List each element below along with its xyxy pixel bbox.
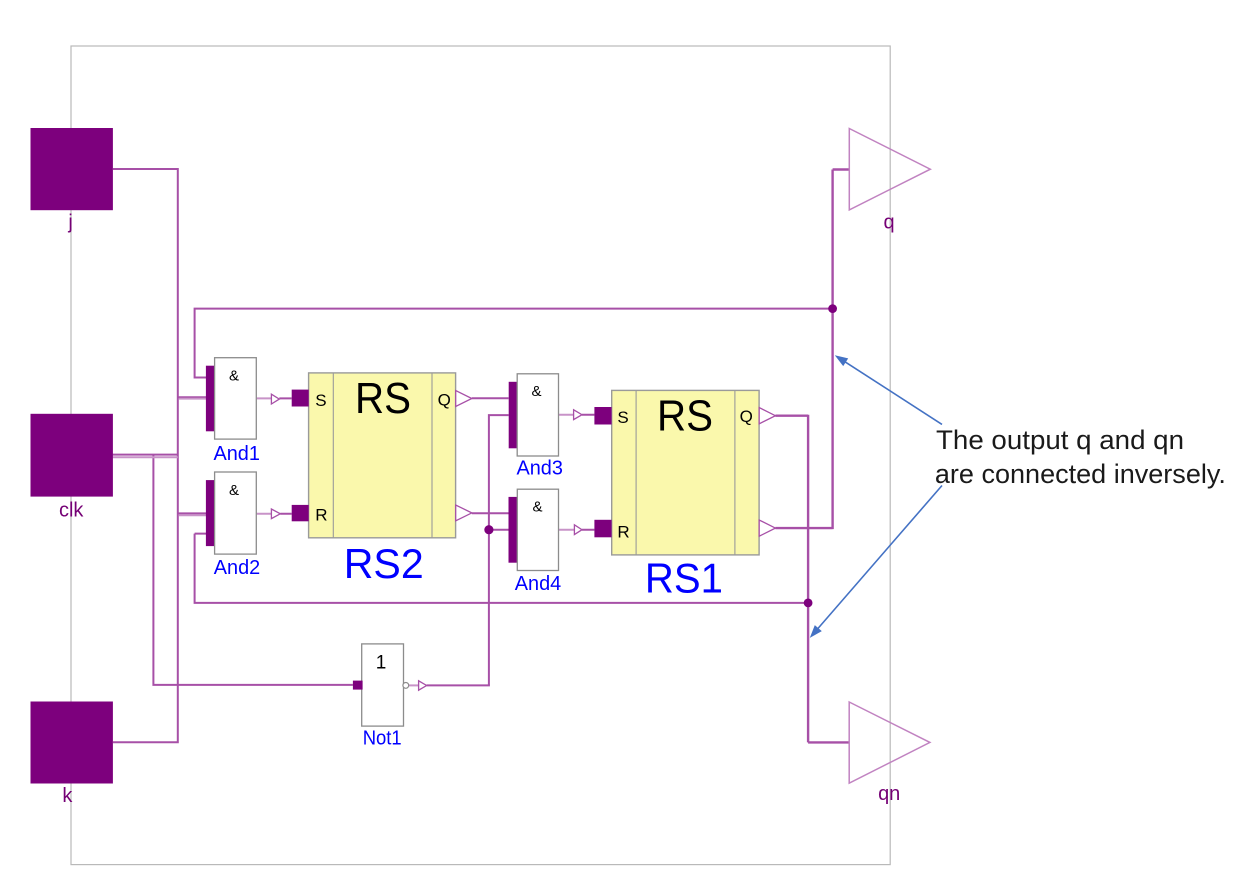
svg-text:RS1: RS1: [645, 555, 723, 602]
svg-text:&: &: [532, 498, 542, 515]
svg-text:And3: And3: [516, 458, 563, 480]
svg-text:qn: qn: [878, 783, 900, 805]
svg-text:And1: And1: [213, 443, 260, 465]
svg-text:&: &: [229, 482, 239, 499]
svg-text:1: 1: [376, 653, 387, 674]
svg-text:R: R: [315, 505, 327, 524]
svg-text:S: S: [315, 391, 326, 410]
svg-text:Q: Q: [438, 390, 451, 409]
svg-text:are connected inversely.: are connected inversely.: [935, 459, 1226, 489]
svg-text:The output q and qn: The output q and qn: [936, 425, 1184, 455]
svg-text:&: &: [229, 368, 239, 385]
svg-text:Not1: Not1: [363, 728, 402, 750]
svg-text:RS2: RS2: [344, 540, 424, 587]
svg-text:q: q: [883, 211, 894, 233]
svg-text:k: k: [62, 785, 73, 807]
svg-text:S: S: [617, 408, 628, 427]
svg-text:R: R: [617, 523, 629, 542]
svg-text:&: &: [531, 383, 541, 400]
svg-text:And2: And2: [214, 557, 261, 579]
svg-text:And4: And4: [515, 573, 562, 595]
svg-text:j: j: [67, 212, 72, 234]
svg-text:RS: RS: [355, 374, 411, 423]
svg-text:RS: RS: [657, 391, 713, 440]
svg-text:clk: clk: [59, 500, 84, 522]
svg-text:Q: Q: [740, 407, 753, 426]
